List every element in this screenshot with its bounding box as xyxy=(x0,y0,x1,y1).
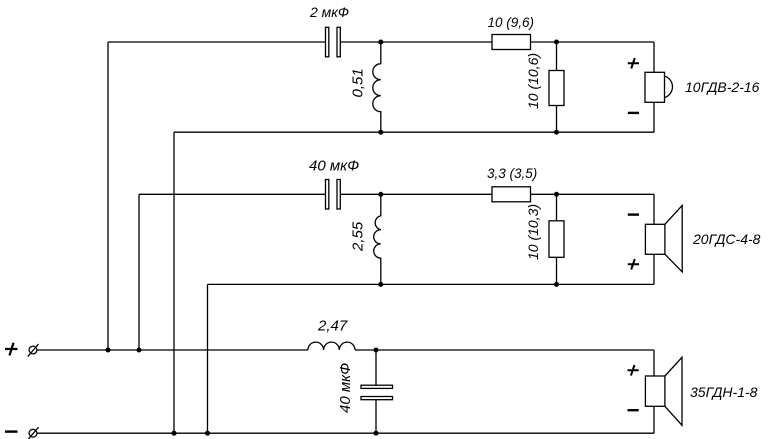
speaker BA1 tweeter xyxy=(645,72,672,102)
speaker BA2 midrange xyxy=(645,205,682,272)
wire MF top xyxy=(139,193,654,195)
label - (BA1) xyxy=(628,112,639,114)
label + (BA1) xyxy=(628,58,639,69)
wire vertical to MF top xyxy=(138,194,140,350)
capacitor C2 40 мкФ xyxy=(326,180,341,210)
node R2 top xyxy=(554,40,559,45)
inductor L2 2,55 xyxy=(374,194,381,284)
wire HF top xyxy=(108,41,654,43)
svg-text:35ГДН-1-8: 35ГДН-1-8 xyxy=(690,384,758,400)
svg-text:20ГДС-4-8: 20ГДС-4-8 xyxy=(692,231,761,247)
speaker BA3 woofer xyxy=(645,357,682,425)
node dots xyxy=(106,40,560,436)
node MF return on - rail xyxy=(205,431,210,436)
resistor R3 3,3 (3,5) xyxy=(492,187,531,202)
svg-text:10 (9,6): 10 (9,6) xyxy=(488,15,535,30)
svg-text:2,55: 2,55 xyxy=(350,221,367,252)
wire vertical HF bottom to negative rail xyxy=(173,132,175,433)
node MF branch on + rail xyxy=(137,348,142,353)
terminal - (input) xyxy=(28,427,39,439)
terminal + (input) xyxy=(28,344,39,357)
node HF branch on + rail xyxy=(106,348,111,353)
node L1 top xyxy=(378,40,383,45)
node L1 bottom xyxy=(378,130,383,135)
wire MF right xyxy=(653,194,655,284)
wire MF bottom xyxy=(208,283,655,285)
label - (BA3) xyxy=(628,409,639,411)
resistor R1 10 (9,6) xyxy=(492,35,531,50)
svg-text:40 мкФ: 40 мкФ xyxy=(309,158,359,175)
node L2 top xyxy=(378,192,383,197)
capacitor C1 2 мкФ xyxy=(326,27,341,57)
wire negative rail xyxy=(37,432,654,434)
node R2 bottom xyxy=(554,130,559,135)
label - (BA2) xyxy=(628,213,639,215)
label + (input polarity) xyxy=(5,343,18,356)
svg-text:2 мкФ: 2 мкФ xyxy=(309,4,349,20)
label + (BA2) xyxy=(628,259,639,270)
wire positive rail xyxy=(37,349,654,351)
node C3 top xyxy=(374,348,379,353)
svg-text:10 (10,3): 10 (10,3) xyxy=(525,204,541,260)
inductor L3 2,47 xyxy=(308,342,355,350)
svg-text:2,47: 2,47 xyxy=(317,318,348,335)
wire vertical to HF top xyxy=(107,42,109,350)
svg-text:0,51: 0,51 xyxy=(350,68,367,97)
resistor R2 10 (10,6) xyxy=(549,42,564,132)
resistor R4 10 (10,3) xyxy=(549,194,564,284)
label + (BA3) xyxy=(628,365,639,376)
node HF return on - rail xyxy=(172,431,177,436)
node C3 bottom xyxy=(374,431,379,436)
capacitor C3 40 мкФ (LF) xyxy=(361,350,393,433)
label - (input polarity) xyxy=(5,430,18,432)
wire vertical MF bottom to negative rail xyxy=(207,284,209,433)
node R4 top xyxy=(554,192,559,197)
wire HF bottom xyxy=(174,131,654,133)
svg-text:10 (10,6): 10 (10,6) xyxy=(525,53,541,109)
wire HF right xyxy=(653,42,655,132)
inductor L1 0,51 xyxy=(373,42,381,132)
node R4 bottom xyxy=(554,282,559,287)
svg-text:10ГДВ-2-16: 10ГДВ-2-16 xyxy=(685,79,760,95)
wire LF right xyxy=(653,350,655,433)
node L2 bottom xyxy=(378,282,383,287)
svg-text:40 мкФ: 40 мкФ xyxy=(337,363,354,413)
svg-text:3,3 (3,5): 3,3 (3,5) xyxy=(487,166,537,181)
